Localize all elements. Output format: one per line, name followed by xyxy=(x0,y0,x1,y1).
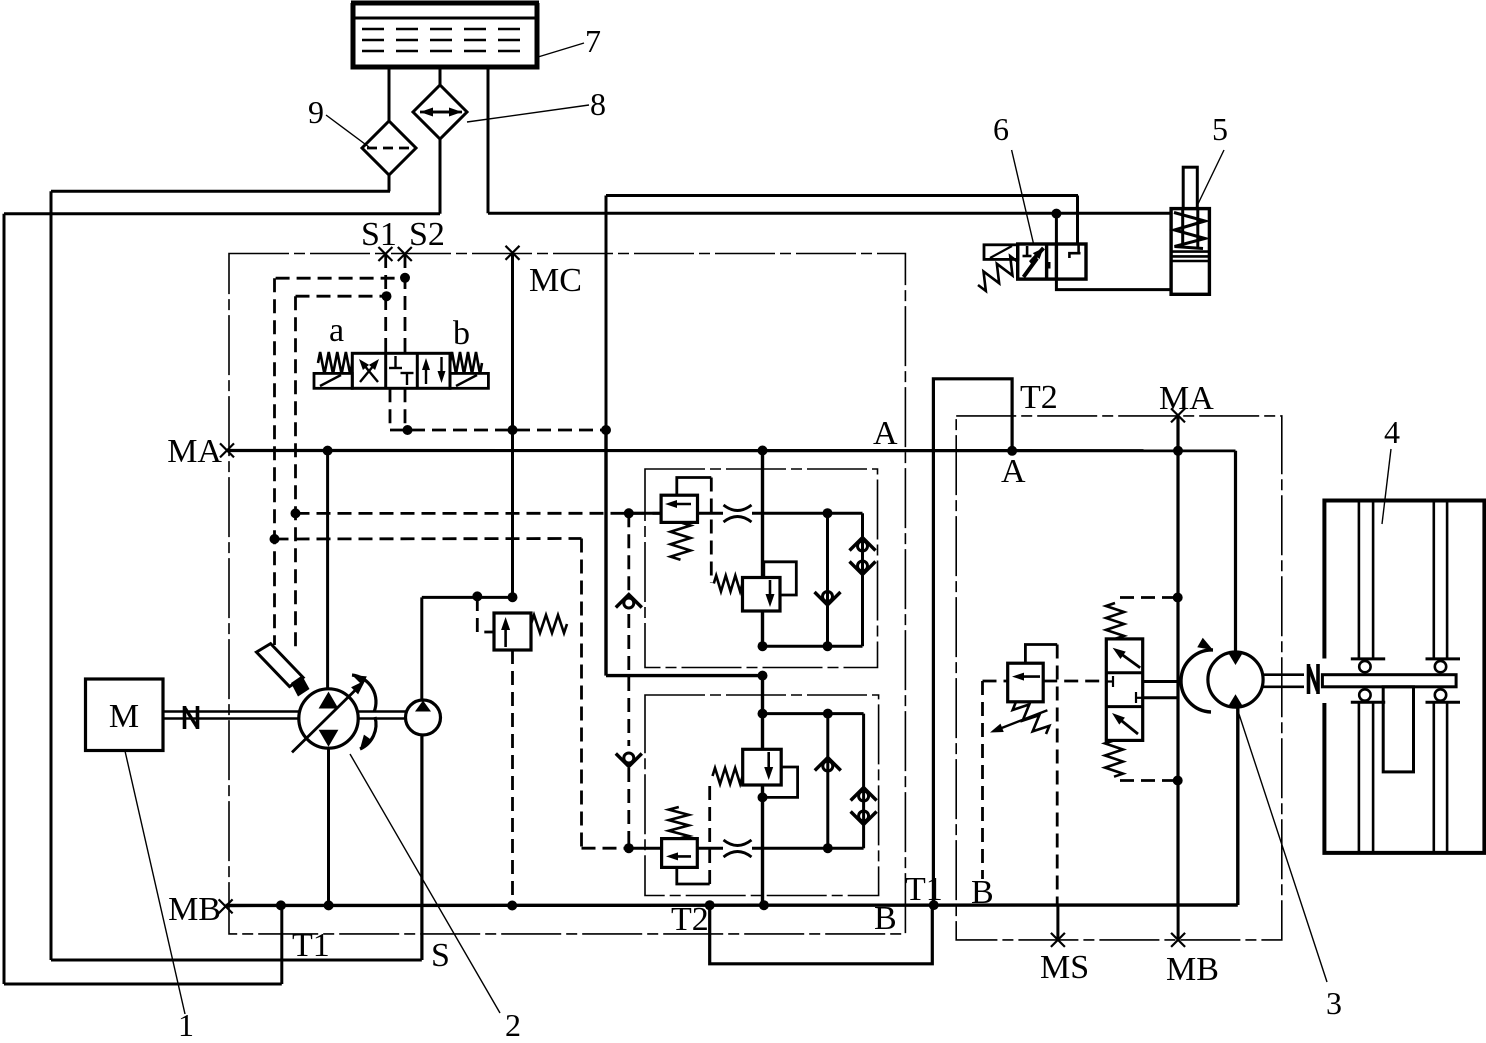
svg-text:MS: MS xyxy=(1040,949,1089,986)
svg-text:a: a xyxy=(329,312,344,349)
svg-text:A: A xyxy=(873,415,898,452)
svg-text:T1: T1 xyxy=(292,927,330,964)
svg-text:M: M xyxy=(109,698,139,735)
svg-text:MA: MA xyxy=(1159,380,1214,417)
svg-text:7: 7 xyxy=(585,23,601,59)
svg-text:MB: MB xyxy=(168,891,221,928)
svg-text:S: S xyxy=(431,937,450,974)
svg-text:S2: S2 xyxy=(409,216,445,253)
svg-text:3: 3 xyxy=(1326,985,1342,1021)
svg-text:b: b xyxy=(453,315,470,352)
svg-text:2: 2 xyxy=(505,1007,521,1038)
svg-text:5: 5 xyxy=(1212,111,1228,147)
svg-text:MA: MA xyxy=(167,433,222,470)
svg-text:A: A xyxy=(1001,453,1026,490)
svg-text:6: 6 xyxy=(993,111,1009,147)
svg-text:MC: MC xyxy=(529,262,582,299)
svg-text:9: 9 xyxy=(308,94,324,130)
svg-text:4: 4 xyxy=(1384,414,1400,450)
svg-text:8: 8 xyxy=(590,86,606,122)
svg-text:T2: T2 xyxy=(1020,379,1058,416)
svg-text:1: 1 xyxy=(178,1007,194,1038)
svg-text:B: B xyxy=(971,874,994,911)
svg-text:MB: MB xyxy=(1166,951,1219,988)
svg-text:S1: S1 xyxy=(361,216,397,253)
